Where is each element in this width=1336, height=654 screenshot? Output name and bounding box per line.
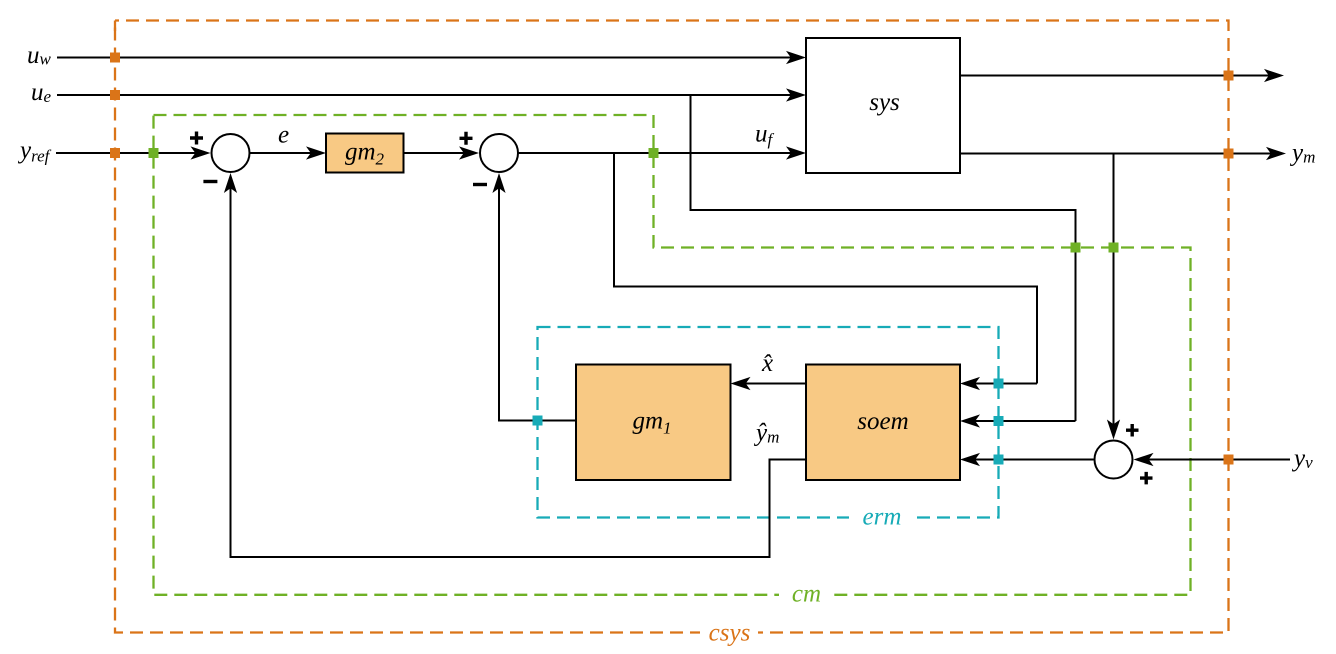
wire into soem input 2: [960, 414, 1076, 427]
node square orange y_m: [1224, 149, 1234, 159]
sign plus at S3 top: [1126, 424, 1139, 437]
wire gm1 to S2 (minus input): [492, 173, 576, 421]
boundary erm (cyan dashed box): [538, 327, 999, 518]
node square orange out1: [1224, 71, 1234, 81]
sign minus at S2: [473, 183, 487, 186]
wire branch u_f to soem (node at 614): [614, 153, 1037, 384]
wire e (S1 to gm2): [250, 146, 326, 159]
label gap for cm: [779, 585, 834, 605]
node square orange u_e: [110, 90, 120, 100]
wire x_hat (soem to gm1): [731, 377, 807, 390]
svg-text:cm: cm: [792, 581, 821, 608]
node square orange u_w: [110, 53, 120, 63]
csys corner stub: [114, 21, 116, 32]
block gm1: [576, 365, 731, 481]
svg-text:csys: csys: [709, 620, 751, 647]
wire branch y_m to S3: [1107, 154, 1120, 440]
label gap for erm: [849, 508, 916, 528]
svg-text:sys: sys: [869, 89, 900, 116]
wire S3 to soem input 3: [960, 453, 1094, 466]
node square green y_ref: [149, 148, 159, 158]
svg-text:soem: soem: [857, 408, 908, 435]
node square cyan soem input3: [994, 455, 1004, 465]
block soem: [806, 365, 960, 481]
svg-text:ym: ym: [1289, 140, 1315, 167]
summing junction S3: [1095, 441, 1133, 479]
wire sys output 1: [960, 69, 1284, 82]
svg-text:e: e: [278, 122, 289, 149]
wire branch u_e to soem (node at 690.5): [691, 95, 1076, 421]
sign plus at S3 bottom: [1140, 472, 1153, 485]
summing junction S2: [480, 134, 518, 172]
boundary csys (orange dashed box): [115, 21, 1229, 633]
node square orange y_v: [1224, 455, 1234, 465]
wire into soem input 1: [960, 377, 1037, 390]
node square green u_f: [649, 148, 659, 158]
svg-text:uf: uf: [755, 121, 775, 150]
node square orange y_ref: [110, 148, 120, 158]
node square cyan soem input2: [994, 416, 1004, 426]
block gm2: [326, 134, 404, 173]
wire u_w input: [57, 51, 806, 64]
wire y_ref input: [56, 146, 211, 159]
wire gm2 to S2: [404, 146, 480, 159]
svg-text:ŷm: ŷm: [753, 420, 779, 447]
sign plus at S2: [460, 132, 473, 145]
svg-text:yref: yref: [17, 137, 52, 166]
svg-text:erm: erm: [863, 504, 902, 531]
svg-text:uw: uw: [27, 42, 52, 69]
node square green branch2: [1109, 243, 1119, 253]
svg-text:x̂: x̂: [761, 350, 773, 377]
summing junction S1: [212, 134, 250, 172]
block sys: [806, 38, 960, 173]
wire y_m_hat feedback (soem to S1 minus input): [224, 173, 806, 557]
label gap for csys: [700, 622, 758, 643]
wire u_f (S2 to sys): [518, 146, 806, 159]
node square cyan gm1 input: [533, 416, 543, 426]
node square cyan soem input1: [994, 379, 1004, 389]
sign minus at S1: [203, 180, 217, 183]
svg-text:ue: ue: [31, 79, 52, 106]
wire y_m output: [960, 147, 1286, 160]
wire y_v input: [1134, 453, 1291, 466]
boundary cm (green dashed polygon): [154, 115, 1191, 595]
svg-text:yv: yv: [1291, 445, 1313, 472]
node square green branch1: [1071, 243, 1081, 253]
sign plus at S1: [190, 132, 203, 145]
wire u_e input: [57, 88, 806, 101]
